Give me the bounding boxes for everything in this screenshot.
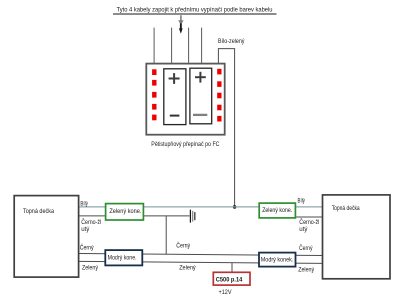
heating pad box left (Topná dečka) (14, 196, 78, 278)
svg-text:Černý: Černý (176, 243, 191, 250)
connector C500 p.14 (red box) (213, 272, 250, 285)
svg-text:utý: utý (81, 226, 90, 233)
arrow (gray upper part) pointing down from instruction text (178, 15, 183, 25)
wire 2 to front switch (171, 28, 173, 64)
svg-text:Topná dečka: Topná dečka (23, 208, 54, 215)
green connector left (Zelený kone.) (106, 204, 144, 220)
heating pad box right (Topná dečka) (323, 195, 391, 279)
svg-text:Modrý konek.: Modrý konek. (261, 257, 294, 263)
svg-text:Černo-žl: Černo-žl (81, 219, 101, 226)
svg-text:Zelený: Zelený (298, 266, 315, 273)
minus symbol right (193, 114, 207, 116)
wire black-yellow (Černo-žlutý) right (259, 216, 323, 218)
wire vertical drop from black-yellow to black wire (165, 216, 167, 254)
plus symbol right (195, 72, 206, 83)
svg-text:Bílý: Bílý (80, 200, 88, 207)
wire green (Zelený) main horizontal (79, 261, 323, 263)
arrow (black lower tip) (179, 23, 183, 33)
svg-text:Zelený kone.: Zelený kone. (109, 209, 141, 215)
svg-text:Zelený kone.: Zelený kone. (262, 208, 292, 214)
ground symbol (three bars) (190, 210, 196, 223)
svg-text:Tyto 4 kabely zapojit k přední: Tyto 4 kabely zapojit k přednímu vypínač… (117, 7, 273, 14)
wire 1 to front switch (153, 28, 155, 64)
svg-text:Černý: Černý (80, 244, 95, 251)
svg-text:C500 p.14: C500 p.14 (216, 277, 243, 284)
wire 4 to front switch (201, 28, 203, 64)
switch box (Pětistupňový přepínač) (146, 64, 224, 135)
wire black-yellow (Černo-žlutý) left (79, 215, 190, 217)
switch inner rectangle left (164, 69, 186, 125)
plus symbol left (169, 73, 180, 84)
wire white (Bílý) main horizontal (79, 206, 323, 208)
svg-text:utý: utý (299, 226, 308, 233)
wire black (Černý) main horizontal (79, 254, 323, 256)
underline of instruction text (113, 13, 277, 15)
svg-text:+12V: +12V (219, 289, 233, 296)
svg-text:Bílo-zelený: Bílo-zelený (218, 38, 245, 45)
switch inner rectangle right (190, 68, 212, 124)
red contact dashes right column (217, 69, 221, 122)
svg-text:Zelený: Zelený (179, 265, 196, 272)
svg-text:Pětistupňový přepínač po FC: Pětistupňový přepínač po FC (151, 141, 220, 148)
blue connector right (Modrý konek.) (259, 253, 296, 267)
wire 3 to front switch (188, 28, 190, 64)
svg-text:Topná dečka: Topná dečka (332, 205, 360, 212)
junction dot on white wire (233, 205, 237, 209)
svg-text:Bílý: Bílý (298, 197, 306, 204)
wire vertical to C500 connector (231, 263, 233, 273)
green connector right (Zelený kone.) (259, 203, 295, 218)
wire Bílo-zelený: up from switch, over and down to white wire (218, 49, 234, 207)
minus symbol left (170, 115, 180, 117)
svg-text:Černý: Černý (299, 245, 313, 252)
svg-text:Modrý kone.: Modrý kone. (108, 255, 137, 261)
red contact dashes left column (152, 69, 156, 120)
svg-text:Zelený: Zelený (82, 265, 99, 272)
blue connector left (Modrý kone.) (105, 250, 142, 265)
